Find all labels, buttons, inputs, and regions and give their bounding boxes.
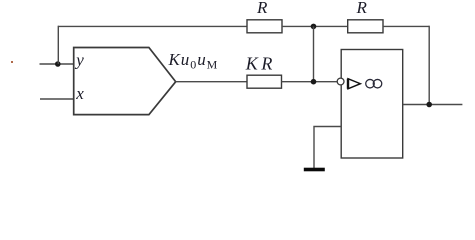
wire middle vertical from top node to input node xyxy=(313,26,315,81)
wire op-amp output xyxy=(403,104,463,106)
wire right feedback drop xyxy=(428,26,430,105)
wire vertical feedback riser xyxy=(57,26,59,64)
svg-text:R: R xyxy=(356,0,368,17)
multiplier block U1 xyxy=(74,48,176,115)
op-amp U2 body xyxy=(341,50,403,159)
wire y-input horizontal xyxy=(40,63,74,65)
wire R1 to R2 xyxy=(282,25,348,27)
stray mark speck xyxy=(11,61,13,63)
resistor R2 xyxy=(348,20,383,33)
wire multiplier output to KR xyxy=(176,81,247,83)
ground symbol xyxy=(304,168,325,172)
wire x-input horizontal xyxy=(40,98,74,100)
wire non-inverting input to ground xyxy=(314,127,341,169)
junction dot on y input xyxy=(55,61,61,67)
junction dot at output xyxy=(426,102,432,108)
op-amp triangle marker xyxy=(348,79,360,89)
svg-text:KR: KR xyxy=(245,54,273,74)
inverting input circle xyxy=(337,78,344,85)
wire KR to op-amp input xyxy=(282,81,338,83)
resistor KR xyxy=(247,75,282,88)
junction node at inverting input column xyxy=(311,79,317,85)
junction node top xyxy=(311,24,317,30)
resistor R1 xyxy=(247,20,282,33)
svg-text:Ku0uM: Ku0uM xyxy=(168,50,219,72)
svg-text:x: x xyxy=(75,84,84,103)
svg-text:R: R xyxy=(256,0,268,17)
svg-text:y: y xyxy=(74,51,84,70)
op-amp infinity gain symbol xyxy=(366,79,382,88)
wire R2 to right corner xyxy=(383,25,429,27)
wire top rail to R1 xyxy=(58,25,247,27)
